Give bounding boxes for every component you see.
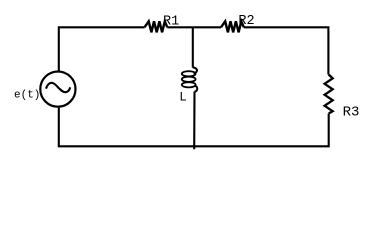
svg-text:L: L [179,91,187,105]
inductor L entry hook [193,67,197,73]
wire between R1 and R2 [167,26,221,28]
svg-text:R3: R3 [343,105,360,121]
wire middle lower [193,92,195,150]
wire middle upper [192,27,194,67]
resistor R3 [325,75,333,114]
source sine wave [46,83,70,92]
inductor L loop 3 [182,82,196,87]
inductor L loop 1 [182,71,196,76]
inductor L loop 2 [182,77,196,82]
inductor L exit hook [195,86,198,92]
resistor R1 [145,21,168,32]
resistor R2 [221,21,244,32]
svg-text:R1: R1 [163,15,179,30]
wire top-right segment + right upper [244,27,329,74]
svg-text:R2: R2 [238,14,254,29]
source e(t) circle [40,72,75,107]
wire right lower + bottom + left lower [59,108,329,147]
wire left upper + top-left segment [59,27,145,71]
svg-text:e(t): e(t) [14,90,40,102]
